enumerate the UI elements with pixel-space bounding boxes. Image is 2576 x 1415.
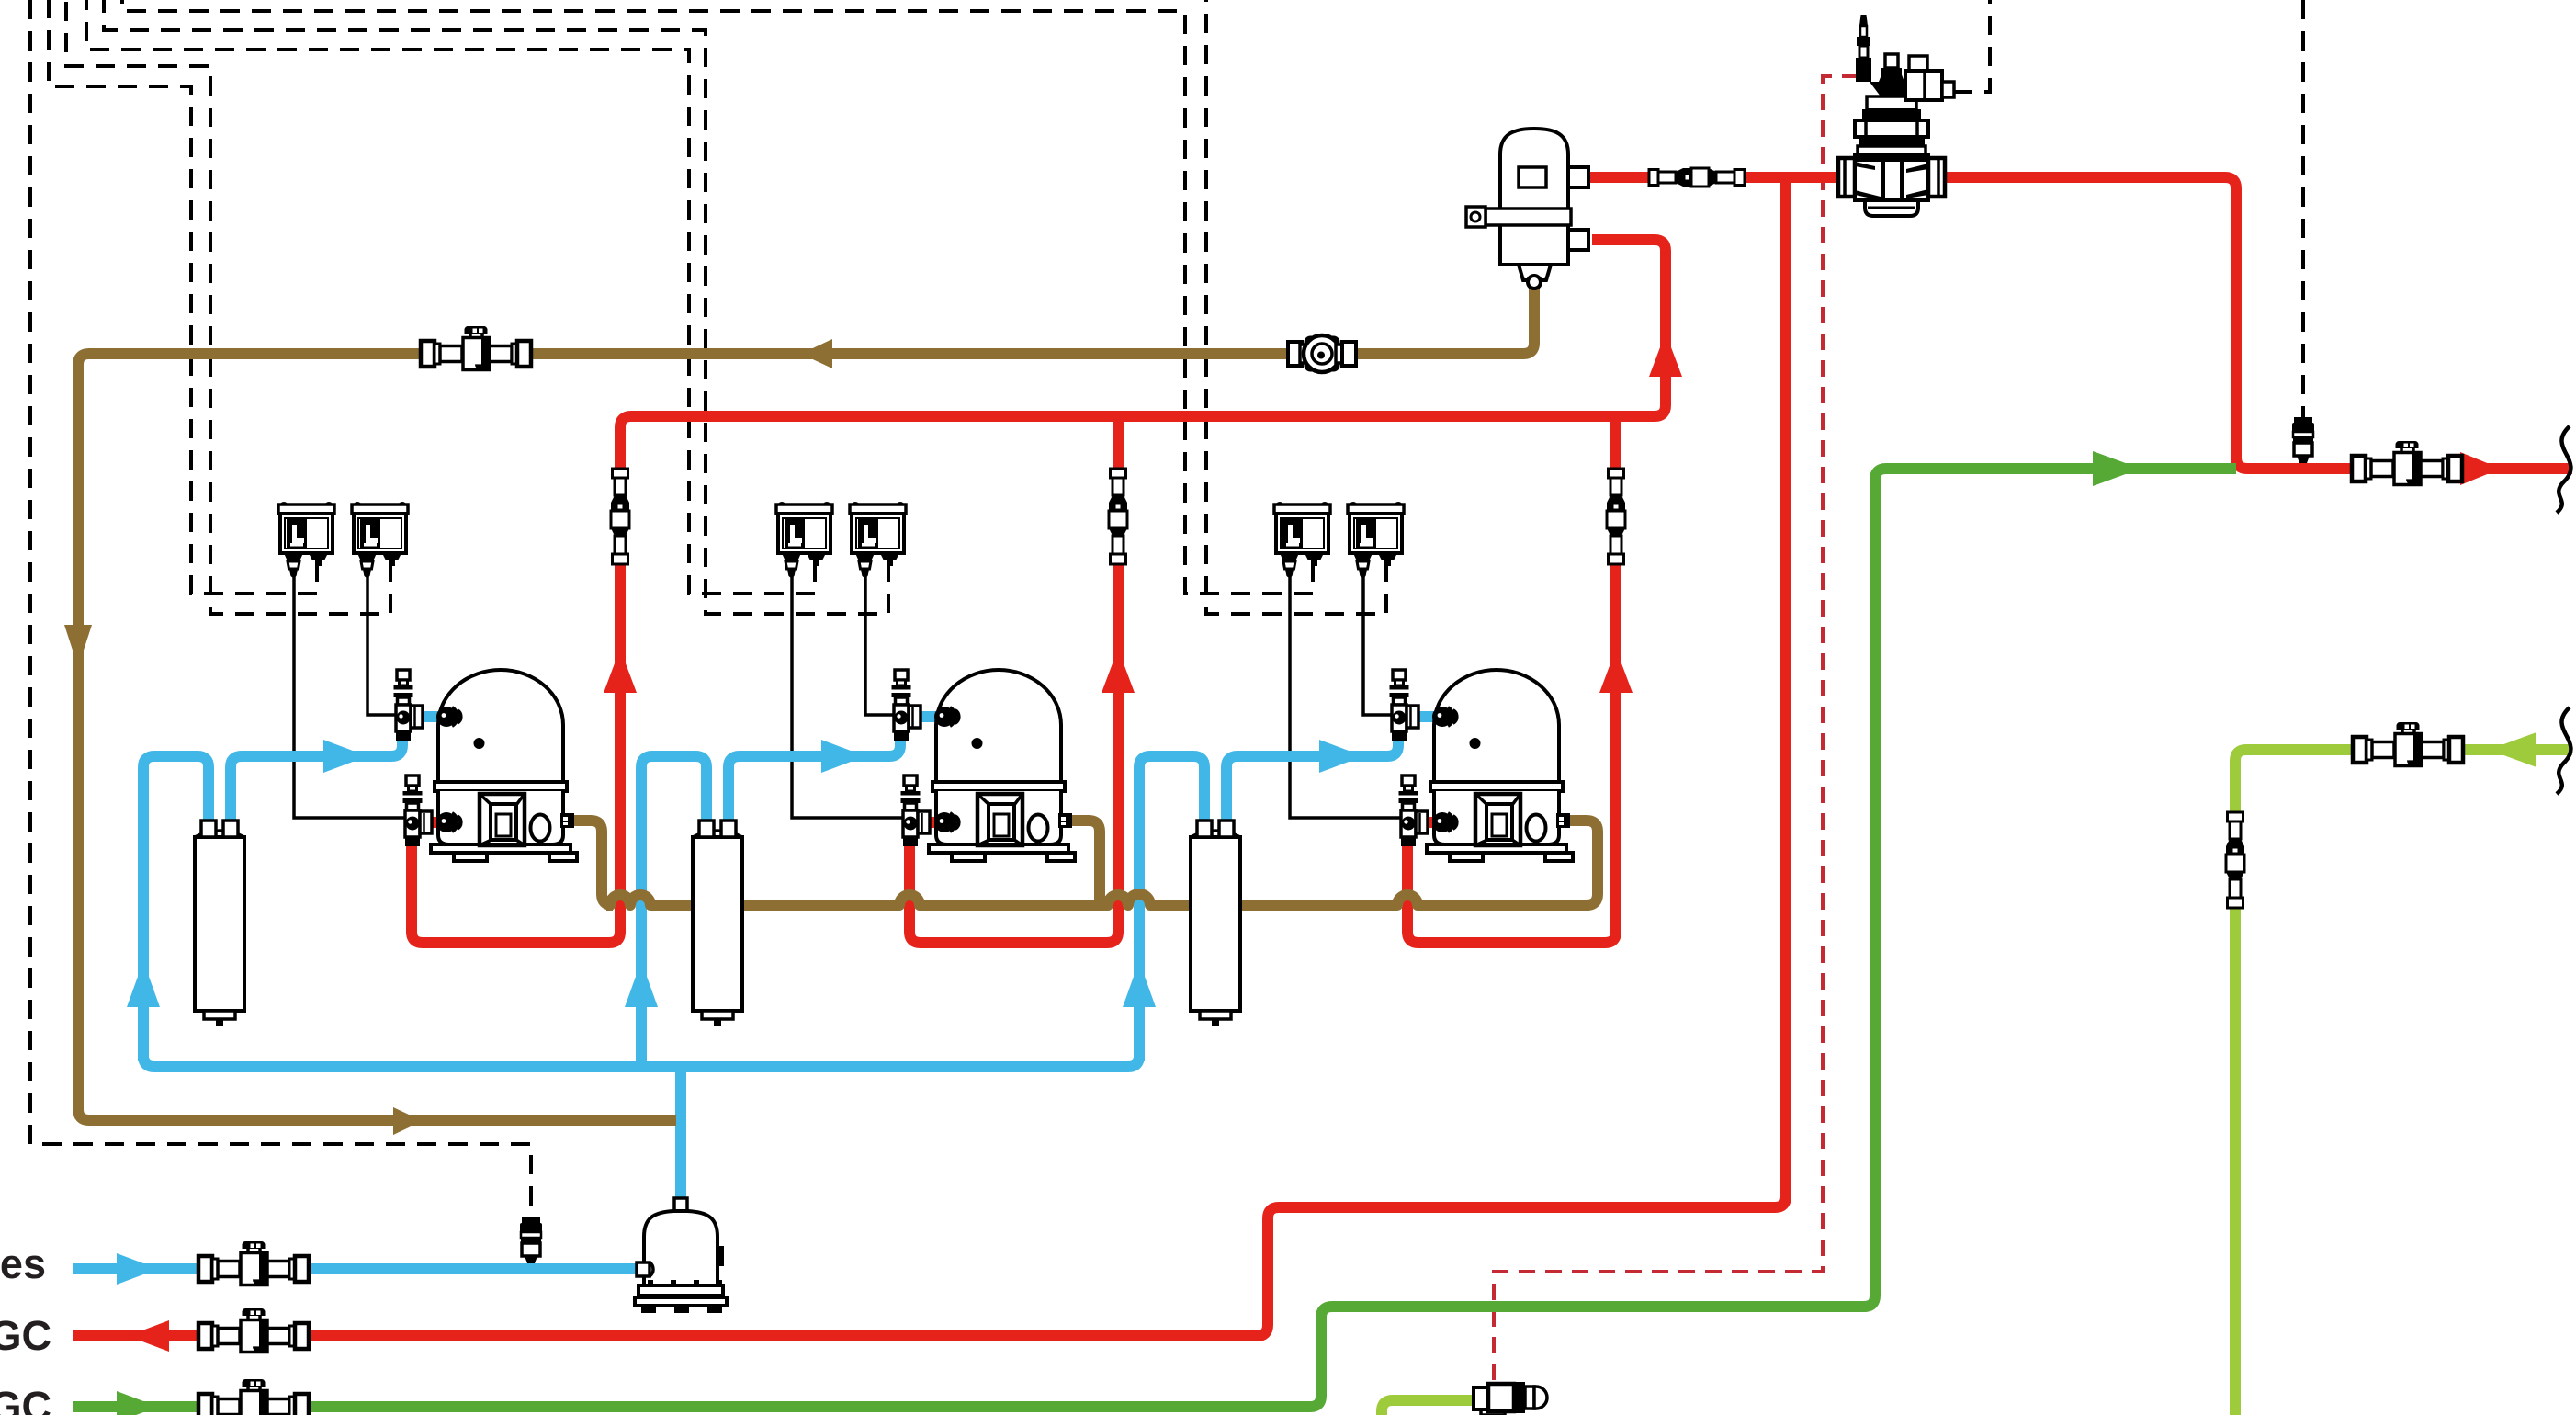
blue suction piping bbox=[73, 717, 1439, 1269]
sight glass in oil return bbox=[1288, 335, 1356, 372]
ball valve discharge GC right bbox=[2352, 441, 2462, 485]
arrow right on discharge GC out bbox=[2460, 452, 2501, 485]
pressure switch 3a bbox=[1274, 502, 1330, 578]
arrow right on bottom oil line bbox=[393, 1107, 423, 1135]
check valve riser 3 bbox=[1607, 469, 1625, 564]
red discharge piping bbox=[73, 177, 2572, 1336]
dashed bus group1 switch A bbox=[49, 0, 317, 594]
arrow group2 suction bbox=[821, 740, 865, 773]
group1 discharge stub bbox=[415, 817, 443, 828]
dashed wire solenoid of main valve bbox=[1953, 0, 1990, 92]
pressure switch 2b bbox=[850, 502, 906, 578]
suction fitting bbox=[436, 707, 461, 727]
pilot line from CVP to charging valve bbox=[1494, 76, 1859, 1389]
blue arrows bbox=[117, 740, 1363, 1285]
dark green line bbox=[73, 469, 2236, 1407]
break squiggle light green bbox=[2557, 707, 2570, 794]
oil return from separator through sight glass to reservoir bbox=[78, 280, 1534, 1120]
discharge service valve bbox=[1399, 775, 1429, 846]
wire switch2a to discharge valve bbox=[792, 570, 904, 818]
wire switch3a to discharge valve bbox=[1290, 570, 1402, 818]
charging valve light green bbox=[1474, 1382, 1547, 1415]
pressure switch 2a bbox=[776, 502, 832, 578]
suction accumulator 1 bbox=[195, 821, 244, 1026]
suction fitting bbox=[934, 707, 959, 727]
arrow group3 riser up bbox=[1123, 961, 1156, 1007]
svg-text:GC: GC bbox=[0, 1312, 51, 1359]
check valve on separator outlet bbox=[1649, 168, 1745, 187]
main light green riser bbox=[2235, 750, 2572, 1415]
ball valve GC green bottom bbox=[198, 1379, 309, 1415]
discharge fitting bbox=[934, 812, 959, 832]
dashed bus group1 switch B bbox=[66, 0, 390, 614]
charging valve bottom stub bbox=[1488, 1406, 1499, 1415]
arrow left on oil return line bbox=[801, 339, 832, 368]
compressor group 2 bbox=[693, 469, 1127, 1026]
wire switch1a to discharge valve bbox=[294, 570, 406, 818]
compressor U3 bbox=[1427, 670, 1573, 861]
dashed wire schrader on discharge line bbox=[2301, 0, 2305, 426]
discharge service valve bbox=[901, 775, 931, 846]
dashed red pilot line bbox=[1494, 76, 1859, 1389]
discharge fitting bbox=[1432, 812, 1457, 832]
group2 compressor oil drop bbox=[1068, 821, 1100, 902]
group1 discharge loop and riser bbox=[412, 427, 620, 943]
arrow left on bottom GC line bbox=[128, 1320, 169, 1352]
arrow separator inlet riser up bbox=[1649, 333, 1682, 377]
discharge fitting bbox=[436, 812, 461, 832]
oil reservoir bbox=[635, 1198, 727, 1313]
arrow group1 riser up bbox=[127, 961, 160, 1007]
ball valve in oil return bbox=[421, 326, 531, 370]
suction header bbox=[143, 1056, 1139, 1067]
arrow group3 suction bbox=[1319, 740, 1363, 773]
pressure switch 1b bbox=[352, 502, 408, 578]
ball valve res suction bbox=[198, 1241, 309, 1285]
arrow right on green top bbox=[2093, 451, 2141, 486]
compressor group 1 bbox=[195, 469, 629, 1026]
group1 compressor oil drop bbox=[570, 821, 613, 905]
group1 suction riser and accumulator loop bbox=[143, 756, 209, 1061]
dashed wire bus to schrader on suction res line bbox=[30, 0, 531, 1228]
light green line bbox=[1382, 750, 2572, 1415]
suction accumulator 2 bbox=[693, 821, 742, 1026]
arrow down on left oil drop bbox=[64, 625, 92, 667]
schrader on res line bbox=[520, 1217, 542, 1263]
pressure switch 1a bbox=[278, 502, 334, 578]
svg-text:res: res bbox=[0, 1240, 46, 1287]
group2 suction riser and accumulator loop bbox=[641, 756, 706, 1067]
check valve riser 1 bbox=[611, 469, 629, 564]
group2 suction stub bbox=[911, 711, 941, 722]
arrow riser2 up bbox=[1102, 649, 1135, 693]
suction service valve bbox=[1390, 670, 1419, 741]
svg-text:GC: GC bbox=[0, 1383, 51, 1415]
bottom fragment to charging valve bbox=[1382, 1400, 1488, 1415]
suction accumulator 3 bbox=[1191, 821, 1240, 1026]
oil fitting bbox=[560, 813, 574, 828]
oil header with hops bbox=[606, 894, 1589, 905]
wire switch1b to suction valve bbox=[367, 570, 397, 715]
ball valve GC red bottom bbox=[198, 1308, 309, 1353]
check valve on light green riser bbox=[2226, 812, 2244, 908]
group2 discharge loop and riser bbox=[910, 411, 1118, 943]
oil fitting bbox=[1556, 813, 1570, 828]
ball valve light green right bbox=[2353, 722, 2463, 766]
dashed bus group3 switch B bbox=[1206, 0, 1386, 614]
compressor U2 bbox=[929, 670, 1075, 861]
arrow right on green bottom GC bbox=[117, 1391, 158, 1415]
dashed bus group2 switch A bbox=[86, 0, 815, 594]
gas cooler return line bbox=[73, 469, 2236, 1407]
suction service valve bbox=[394, 670, 424, 741]
discharge service valve bbox=[403, 775, 433, 846]
group3 suction riser and accumulator loop bbox=[1139, 756, 1204, 1061]
schrader on discharge GC line bbox=[2292, 417, 2314, 463]
group3 discharge loop and riser bbox=[1407, 411, 1616, 943]
suction service valve bbox=[892, 670, 921, 741]
break squiggle red GC bbox=[2557, 426, 2570, 513]
drop to oil reservoir bbox=[675, 1067, 686, 1200]
compressor U1 bbox=[431, 670, 577, 861]
compressor group 3 bbox=[1191, 469, 1625, 1026]
arrow suction res line bbox=[117, 1253, 158, 1285]
arrow riser1 up bbox=[604, 649, 637, 693]
wire switch2b to suction valve bbox=[865, 570, 895, 715]
main servo valve ICS bbox=[1838, 15, 1954, 216]
separator outlet to main valve and gas cooler line bbox=[1588, 177, 2572, 469]
arrow left on light green bbox=[2489, 732, 2536, 767]
check valve riser 2 bbox=[1109, 469, 1127, 564]
tee down to bottom GC line bbox=[73, 177, 1786, 1336]
arrow riser3 up bbox=[1599, 649, 1633, 693]
group3 compressor oil drop bbox=[1565, 821, 1598, 905]
oil fitting bbox=[1058, 813, 1072, 828]
group1 suction stub to compressor bbox=[413, 711, 443, 722]
wire switch3b to suction valve bbox=[1363, 570, 1393, 715]
brown arrows bbox=[64, 339, 832, 1135]
oil separator bbox=[1466, 129, 1588, 289]
pressure switch 3b bbox=[1348, 502, 1404, 578]
red arrows bbox=[128, 333, 2501, 1352]
brown oil piping bbox=[78, 280, 1598, 1120]
discharge manifold to oil separator inlet bbox=[620, 240, 1666, 427]
suction fitting bbox=[1432, 707, 1457, 727]
suction line from evaporators (res) bbox=[73, 1263, 640, 1274]
group3 suction stub bbox=[1409, 711, 1439, 722]
dashed bus group3 switch A bbox=[122, 0, 1313, 594]
dashed bus group2 switch B bbox=[104, 0, 888, 614]
arrow group1 suction bbox=[323, 740, 367, 773]
arrow group2 riser up bbox=[625, 961, 658, 1007]
